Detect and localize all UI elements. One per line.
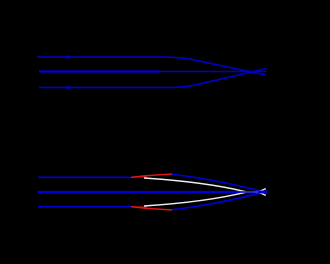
red dispersed segment upper — [131, 174, 172, 177]
incoming upper ray — [38, 176, 131, 178]
bottom marginal ray — [39, 69, 267, 88]
top marginal ray — [37, 57, 266, 75]
blue refracted ray upper — [172, 174, 267, 193]
red dispersed flat strand upper — [131, 176, 147, 178]
axis ray (thick incoming segment) — [39, 70, 160, 72]
axis ray (thin segment through focus) — [245, 191, 267, 193]
red dispersed segment lower — [131, 207, 172, 210]
white refracted ray lower — [144, 189, 266, 206]
arrowhead on bottom marginal ray — [67, 86, 75, 90]
blue refracted ray lower — [172, 190, 267, 209]
axis ray (thick incoming segment) — [38, 191, 245, 193]
arrowhead on top marginal ray — [67, 55, 75, 59]
red dispersed flat strand lower — [131, 206, 147, 208]
incoming lower ray — [38, 206, 131, 208]
axis ray overlay at focus — [240, 191, 260, 193]
blue focal blob — [257, 191, 267, 194]
white refracted ray upper — [144, 178, 266, 195]
axis ray (thin segment through focus) — [160, 71, 267, 73]
